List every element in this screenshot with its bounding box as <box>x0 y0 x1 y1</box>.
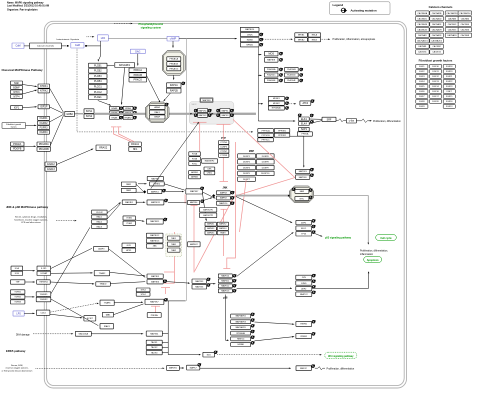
mutation sym MKNK2 <box>285 102 289 105</box>
wire RASGRF1 to RAS <box>122 68 125 105</box>
adapter TRAF2 <box>94 271 110 276</box>
svg-text:Proliferation, differentiation: Proliferation, differentiation <box>373 120 401 123</box>
svg-text:CD14: CD14 <box>41 312 47 314</box>
calcium channel CACNA1E <box>416 22 430 26</box>
kinase MAPK9 <box>216 196 230 200</box>
phospholipase PLCG2 <box>89 90 108 95</box>
svg-text:NGF: NGF <box>14 82 20 85</box>
svg-text:PLA2G4F: PLA2G4F <box>287 79 296 82</box>
phosphatase PPP3CC <box>258 138 274 142</box>
svg-text:TGFBR1: TGFBR1 <box>40 294 49 296</box>
svg-text:IGF1: IGF1 <box>14 107 20 110</box>
svg-text:ARRB2: ARRB2 <box>191 176 199 179</box>
mutation sym ELK1 left <box>298 114 302 117</box>
svg-text:MAP4K5: MAP4K5 <box>207 232 214 235</box>
phospholipase PLCB1 <box>89 63 108 67</box>
red bar onto MAP3K6 wire <box>164 282 174 284</box>
kinase STK3 <box>136 288 150 292</box>
ligand NTF4 <box>11 95 23 99</box>
mutation sym MKNK1 <box>285 97 289 100</box>
receptor FGFR3 <box>38 126 50 130</box>
wire MAP3K1 to MAP3K7 hub <box>166 191 183 193</box>
TF ATF2 <box>296 220 312 224</box>
GTPase RAC2 <box>92 220 108 224</box>
kinase RPS6KA5 <box>268 106 284 110</box>
svg-text:Proliferation, differentiation: Proliferation, differentiation <box>327 367 355 370</box>
svg-text:CACNB2: CACNB2 <box>432 45 441 48</box>
svg-text:PRKCB: PRKCB <box>134 74 143 77</box>
adapter CRK <box>204 167 215 171</box>
svg-text:Apoptosis: Apoptosis <box>367 259 380 262</box>
svg-text:NFATC4: NFATC4 <box>237 338 244 341</box>
fibroblast growth factors label box <box>2 122 26 128</box>
activating mutation symbol <box>233 274 237 277</box>
calcium channels label box <box>30 43 62 49</box>
wire PKA to RAP1 <box>173 75 175 80</box>
activating mutation on KRAS <box>133 107 137 110</box>
wire TNFR to TRADD <box>50 282 94 284</box>
mutation sym MAP2K1 left <box>194 109 198 112</box>
wire MAP3K7 to gray rail <box>164 300 186 302</box>
kinase MAP2K1 <box>198 109 208 113</box>
activating mutation symbol <box>251 341 255 344</box>
svg-text:ARRB1: ARRB1 <box>191 171 199 174</box>
svg-text:LPS and other stress: LPS and other stress <box>21 221 40 224</box>
wire IL1 to IL1R <box>23 270 35 272</box>
svg-text:RRAS: RRAS <box>112 116 118 119</box>
svg-text:Activating mutation: Activating mutation <box>351 8 377 12</box>
activating mutation symbol <box>233 279 237 282</box>
wire cAMP to NIK stack <box>179 38 237 40</box>
stub to ELK stack <box>258 120 295 122</box>
svg-text:CACNA1I: CACNA1I <box>418 34 427 37</box>
wire stack to CREB <box>254 337 294 341</box>
kinase LRRK2 <box>150 182 165 186</box>
calcium channel CACNB1 <box>416 44 430 48</box>
wire LPA to cAMP <box>108 38 167 40</box>
svg-text:CASP3: CASP3 <box>98 248 105 251</box>
svg-text:IGF1R: IGF1R <box>40 106 47 109</box>
mutation sym PLA2G4C <box>279 74 283 77</box>
svg-text:RELB: RELB <box>312 39 318 41</box>
kinase PRKRA <box>147 313 161 318</box>
wire calcium channels to square <box>62 45 67 47</box>
kinase MAPK7 <box>187 365 200 370</box>
wire NTRK to GRB2 <box>50 88 64 113</box>
cell membrane inner <box>47 24 405 386</box>
phospholipase PLCG1 <box>89 84 108 89</box>
svg-text:RELA: RELA <box>312 34 318 37</box>
mutation sym MAPK3 right <box>230 114 234 117</box>
svg-text:CACNG5: CACNG5 <box>448 28 457 31</box>
calcium channel CACNB2 <box>430 44 444 48</box>
wire MAP2K4 to JNK <box>204 198 212 201</box>
svg-text:RASGRF1: RASGRF1 <box>119 64 131 67</box>
receptor IL1RAP <box>37 271 51 275</box>
svg-text:PLA2G4D: PLA2G4D <box>287 74 296 77</box>
svg-text:NTF3: NTF3 <box>14 91 21 94</box>
TF MYC <box>295 197 309 201</box>
svg-text:ATF2: ATF2 <box>301 287 307 290</box>
kinase PRKACA <box>167 57 181 61</box>
wire into LRRK2 <box>138 183 147 185</box>
svg-text:PPM1A: PPM1A <box>302 133 309 136</box>
svg-text:MAP4K2: MAP4K2 <box>219 223 226 226</box>
kinase MAPKAPK3 <box>231 320 251 324</box>
svg-text:RAC1: RAC1 <box>97 216 103 219</box>
TF NFKB2 <box>295 38 308 42</box>
svg-text:Organism: Pan troglodytes: Organism: Pan troglodytes <box>7 9 38 12</box>
svg-text:p53 signaling pathway: p53 signaling pathway <box>325 236 352 239</box>
activating mutation symbol <box>312 365 316 368</box>
phosphatase PTPRR <box>219 153 229 157</box>
red inhibition RASA1 to RAS <box>114 127 132 142</box>
svg-text:CACNA2D4: CACNA2D4 <box>459 12 471 15</box>
red bar onto MEK <box>193 121 207 123</box>
fibroblast growth factor FGF19 <box>443 69 455 73</box>
kinase MKNK2 <box>268 101 284 105</box>
calcium channel CACNA2D3 <box>445 11 459 15</box>
kinase TAK1 <box>167 236 180 240</box>
svg-text:DUSP4: DUSP4 <box>243 167 251 169</box>
svg-text:RASGRF2: RASGRF2 <box>205 160 215 163</box>
wire TAB1 to MAP3K7b <box>114 304 144 315</box>
svg-text:MAP3K11: MAP3K11 <box>151 201 161 204</box>
calcium channel CACNA1G <box>416 28 430 32</box>
square anchor left of CaM2 <box>67 45 69 47</box>
adapter MAP3K7IP2 <box>200 213 217 218</box>
wire calcineurin to MAP2K3 <box>290 136 304 166</box>
squiggle wire c-fos to text <box>356 119 371 123</box>
svg-text:MAP3K13: MAP3K13 <box>150 239 160 242</box>
svg-text:PPP3R1: PPP3R1 <box>278 130 287 132</box>
GTPase RRAS <box>110 116 120 120</box>
svg-text:TP53: TP53 <box>301 234 307 236</box>
phosphatase DUSP8 <box>256 160 274 164</box>
mutation sym PLA2G4A <box>279 68 283 71</box>
svg-text:IL1A: IL1A <box>15 267 20 270</box>
svg-text:factors: factors <box>11 126 17 129</box>
GTPase RAP1B <box>167 88 182 93</box>
G-protein GNA12 <box>45 162 57 166</box>
svg-text:MAP3K4: MAP3K4 <box>150 332 159 335</box>
activating mutation symbol <box>231 196 235 199</box>
svg-text:FGF21: FGF21 <box>446 76 453 78</box>
svg-text:TGFB2: TGFB2 <box>14 297 21 299</box>
phosphatase DUSP4 <box>238 165 256 169</box>
link Apoptosis oval <box>364 257 382 263</box>
GTPase RRAS2 <box>123 116 133 120</box>
adapter TRADD <box>96 282 111 286</box>
svg-text:Wnt signaling pathway: Wnt signaling pathway <box>328 355 354 358</box>
wire MAP4K1 to MAP3K11 <box>136 201 145 203</box>
svg-text:FGFR1: FGFR1 <box>40 117 49 120</box>
receptor FGFR4 <box>38 130 50 134</box>
activating mutation symbol <box>251 336 255 339</box>
phospholipase PLCB2 <box>89 69 108 74</box>
calcium channel CACNG1 <box>416 50 430 54</box>
svg-text:CDC42: CDC42 <box>96 212 103 214</box>
svg-text:PTP: PTP <box>221 137 226 140</box>
wire hub to MAP4K grid <box>203 193 207 221</box>
mutation sym RPS6KA5 <box>285 107 289 110</box>
svg-text:FGF8: FGF8 <box>419 101 425 103</box>
svg-text:ERK5 pathway: ERK5 pathway <box>6 349 26 353</box>
svg-text:CACNB1: CACNB1 <box>418 45 427 48</box>
kinase MAP4K4 <box>217 227 228 231</box>
kinase MAP3K8 <box>264 58 278 63</box>
svg-text:PDGFA: PDGFA <box>13 143 22 146</box>
kinase MAPK8 <box>216 191 230 195</box>
wire TGFBR up to RAC <box>51 227 90 294</box>
receptor PDGFRA <box>37 142 51 146</box>
svg-text:IL1B: IL1B <box>15 273 20 275</box>
svg-text:RPS6KA5: RPS6KA5 <box>272 107 282 110</box>
wire ELK1 to SRF <box>309 118 322 120</box>
link Wnt signaling pathway <box>325 352 357 358</box>
activating mutation symbol <box>292 188 296 191</box>
dashed stress to CDC42 <box>56 220 76 222</box>
kinase HPK1 <box>122 248 136 252</box>
fibroblast growth factor FGF9 <box>416 104 428 108</box>
dashed wire NIK to NFKB complex <box>263 38 292 40</box>
calcium channel CACNG2 <box>430 50 444 54</box>
svg-text:FGF7: FGF7 <box>419 96 425 98</box>
svg-text:FGF13: FGF13 <box>432 81 439 83</box>
kinase MAP4K1 <box>205 222 216 226</box>
svg-text:FGF10: FGF10 <box>432 66 439 68</box>
svg-text:DUSP8: DUSP8 <box>262 162 270 164</box>
svg-text:BDNF: BDNF <box>13 86 20 89</box>
activating mutation symbol <box>312 219 316 222</box>
calcium channel CACNB4 <box>458 16 472 20</box>
svg-text:FGFR4: FGFR4 <box>40 131 49 134</box>
svg-text:PRKACG: PRKACG <box>169 68 178 71</box>
svg-text:ZAK: ZAK <box>153 245 158 248</box>
wire TAOK1 join <box>162 341 168 343</box>
svg-text:TGFBR2: TGFBR2 <box>40 299 49 301</box>
svg-text:MAP3K8: MAP3K8 <box>267 59 276 62</box>
adapter ECSIT <box>84 316 96 321</box>
stub to MOS <box>258 54 261 56</box>
dotted NLK to Wnt pathway <box>217 354 321 356</box>
receptor CD14 <box>36 310 50 315</box>
dashed wire G-protein to LPA <box>87 36 95 38</box>
svg-text:or Srk tyrosine kinase downstr: or Srk tyrosine kinase downstream <box>2 369 33 372</box>
activating mutation symbol <box>164 280 168 283</box>
JNK axis thick wire <box>236 195 288 197</box>
fibroblast growth factor FGF17 <box>430 94 442 98</box>
kinase MAP2K6 <box>296 175 310 179</box>
ligand TGFB1 <box>10 290 25 294</box>
wire FGFR to GRB2 <box>50 114 64 122</box>
svg-text:HSPB1: HSPB1 <box>300 324 308 326</box>
svg-text:STK3: STK3 <box>141 290 147 292</box>
activating mutation symbol <box>207 278 211 281</box>
svg-text:SAP1: SAP1 <box>301 128 308 131</box>
wire octagon to outcome text <box>314 196 369 244</box>
svg-text:STK4: STK4 <box>141 294 147 296</box>
activating mutation symbol <box>312 285 315 288</box>
fibroblast growth factor FGF18 <box>443 64 455 68</box>
red inhibition bar 1 <box>111 126 116 128</box>
svg-text:IKBKB: IKBKB <box>247 39 254 41</box>
kinase MAP3K11 <box>147 200 164 205</box>
kinase TAB2 <box>167 248 180 252</box>
calcium channel CACNA1D <box>430 16 444 20</box>
svg-text:FGFR2: FGFR2 <box>40 122 49 125</box>
fibroblast growth factor FGF1 <box>416 64 428 68</box>
TF CREB1 <box>296 334 312 339</box>
red stem PRKRA <box>155 306 157 312</box>
svg-text:FGF20: FGF20 <box>432 101 439 103</box>
red diagonal ERK to MAP2K3 <box>233 120 295 178</box>
svg-text:FGF13: FGF13 <box>446 106 453 108</box>
svg-text:CACNG4: CACNG4 <box>461 23 470 26</box>
dotted stimulus to MAP2K5 <box>36 367 164 369</box>
ligand BDNF <box>11 86 23 90</box>
red stem PTP to ERK <box>222 124 224 140</box>
kinase TAB1 <box>167 242 180 246</box>
phospholipase PLA2G4C <box>264 73 278 77</box>
wire RAP1 to RAF octagon <box>164 93 171 101</box>
svg-text:Cell cycle: Cell cycle <box>380 237 392 240</box>
square anchor right of CaM2 <box>85 45 87 47</box>
kinase ZAK <box>146 244 163 248</box>
squiggle wire SRF to c-fos <box>336 119 346 122</box>
svg-text:MAPK13: MAPK13 <box>221 290 230 293</box>
kinase MAP3K5 <box>147 274 163 278</box>
svg-text:PTPN7: PTPN7 <box>221 151 228 153</box>
GAP RASA1 <box>129 142 142 146</box>
kinase MAP2K3 <box>296 169 310 173</box>
svg-text:MAP2K3: MAP2K3 <box>299 170 308 173</box>
fibroblast growth factor FGF2 <box>416 69 428 73</box>
phosphatase PPM1A <box>297 132 312 136</box>
red slanted line near JNK <box>240 180 247 233</box>
wire ELK4 to SRF <box>309 121 322 124</box>
kinase GCK <box>122 243 136 247</box>
kinase PRKCB <box>129 73 147 77</box>
activating mutation on RRAS <box>120 116 124 119</box>
activating mutation symbol <box>312 291 315 294</box>
svg-text:FLNA: FLNA <box>192 153 198 156</box>
svg-text:ELK4: ELK4 <box>301 122 308 125</box>
red inhibition NF1 to RAS <box>119 127 135 142</box>
svg-text:Calcium channels: Calcium channels <box>37 46 55 48</box>
fibroblast growth factor FGF14 <box>430 84 442 88</box>
ligand TGFB2 <box>10 295 25 299</box>
mutation sym PLA2G4B <box>300 68 304 71</box>
svg-text:PLA2G4B: PLA2G4B <box>287 68 296 71</box>
kinase TAOK3 <box>146 351 162 355</box>
wire CaM2 to LPA drop line <box>87 45 101 47</box>
activating mutation symbol <box>312 225 316 228</box>
activating mutation symbol <box>312 231 316 234</box>
calcium channel CACNG8 <box>458 33 472 37</box>
svg-text:PRKCA: PRKCA <box>134 69 143 72</box>
filamin FLNB <box>189 157 201 161</box>
kinase MAPK14 <box>218 274 232 278</box>
svg-text:RAF1: RAF1 <box>155 111 161 114</box>
svg-text:MAP3K12: MAP3K12 <box>150 234 160 237</box>
svg-text:TRADD: TRADD <box>100 283 107 286</box>
wire PAK to MAP3K1 <box>136 184 143 191</box>
MEK ERK complex panel <box>189 102 234 125</box>
receptor PDGFRB <box>37 147 51 151</box>
svg-text:MAPK3: MAPK3 <box>222 114 230 117</box>
svg-text:CACNA1B: CACNA1B <box>432 12 442 15</box>
wire p38 to TP53 <box>237 232 294 276</box>
receptor NTRK1 <box>38 84 50 88</box>
svg-text:BRAF: BRAF <box>154 116 160 119</box>
kinase MAP2K6 lower <box>192 285 207 289</box>
svg-text:FGF6: FGF6 <box>419 91 425 93</box>
svg-text:MAP4K3: MAP4K3 <box>207 227 214 230</box>
svg-text:PPP3CA: PPP3CA <box>262 129 271 132</box>
svg-text:FGF19: FGF19 <box>446 71 453 73</box>
svg-text:MAPK10: MAPK10 <box>219 202 228 205</box>
svg-text:Classical MAPKinase Pathway: Classical MAPKinase Pathway <box>2 68 44 72</box>
svg-text:GNA12: GNA12 <box>47 163 56 166</box>
GTPase RAP1A <box>167 83 182 88</box>
ligand IGF1 <box>11 106 23 110</box>
ligand NTF3 <box>11 90 23 94</box>
activating mutation symbol <box>312 320 316 323</box>
svg-text:Fibroblast growth factors: Fibroblast growth factors <box>419 59 453 63</box>
kinase NFKB1 <box>240 43 259 47</box>
activating mutation symbol <box>251 324 255 327</box>
svg-text:heterotrimeric G-protein: heterotrimeric G-protein <box>57 38 80 41</box>
TF ELK4 <box>299 122 310 126</box>
svg-text:CACNG2: CACNG2 <box>432 51 441 54</box>
adapter CRKL <box>204 171 215 175</box>
svg-text:MAPK1: MAPK1 <box>222 109 230 112</box>
phospholipase PLA2G4E <box>264 78 278 82</box>
small GTPase RRAS2 <box>96 145 111 151</box>
TF ATF4 <box>300 101 311 105</box>
svg-text:PLCB3: PLCB3 <box>94 75 102 78</box>
integrin ITGB1 <box>123 216 135 220</box>
complex MAX MYC octagon <box>290 186 314 203</box>
svg-text:MAP2K6: MAP2K6 <box>195 286 204 289</box>
red stem down from MAP2K4 <box>193 205 195 272</box>
svg-text:MAP2K4: MAP2K4 <box>190 201 197 204</box>
activating mutation symbol <box>251 313 255 316</box>
svg-text:FLNB: FLNB <box>192 159 198 161</box>
svg-text:inflammation: inflammation <box>360 253 374 256</box>
svg-text:PLCE1: PLCE1 <box>94 96 102 99</box>
kinase BRAF <box>150 115 166 119</box>
wire TNF to TNFR <box>25 281 35 283</box>
svg-text:RAP1A: RAP1A <box>170 84 178 87</box>
red bar under JNK cluster <box>221 208 227 210</box>
wire PLC to RASGRF1 <box>107 64 114 66</box>
calcium channel CACNA1F <box>430 22 444 26</box>
svg-text:PLA2G4A: PLA2G4A <box>267 68 276 71</box>
legend box <box>330 2 391 15</box>
svg-text:CACNA2D3: CACNA2D3 <box>447 12 459 15</box>
svg-text:MAP2K1: MAP2K1 <box>199 109 208 112</box>
kinase PAK1 <box>121 182 136 186</box>
svg-text:NTF4: NTF4 <box>14 95 21 98</box>
svg-text:MAP4K1: MAP4K1 <box>125 201 134 204</box>
activating mutation on MRAS <box>133 111 137 114</box>
GEF SOS1 <box>84 109 94 114</box>
mutation sym PLA2G4D <box>300 74 304 77</box>
svg-text:GNA13: GNA13 <box>47 168 56 171</box>
svg-text:MAP4K2: MAP4K2 <box>190 243 199 246</box>
